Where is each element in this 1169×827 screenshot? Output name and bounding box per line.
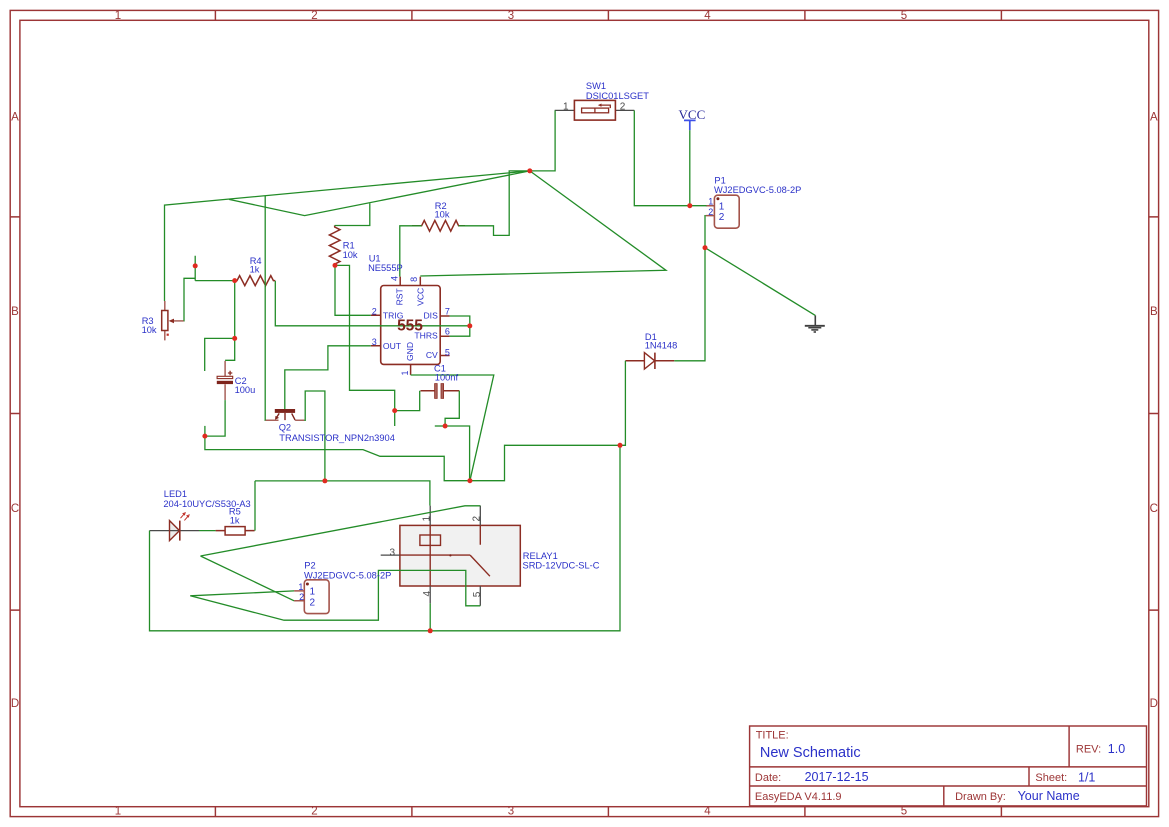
wire diagonal V3 to relay pin2 xyxy=(201,506,481,556)
resistor R1 body xyxy=(329,226,340,266)
svg-text:NE555P: NE555P xyxy=(368,263,403,273)
wire 555 pin1 GND slant xyxy=(411,375,494,481)
node R1 bottom junction xyxy=(333,263,338,268)
svg-text:100nf: 100nf xyxy=(435,373,459,383)
connector P2 body xyxy=(294,580,329,614)
node VCC-P1 junction xyxy=(687,203,692,208)
LED LED1 body xyxy=(150,513,200,541)
svg-text:TRANSISTOR_NPN2n3904: TRANSISTOR_NPN2n3904 xyxy=(279,433,395,443)
svg-text:4: 4 xyxy=(704,805,711,817)
svg-text:RST: RST xyxy=(395,287,405,305)
wire stub left of C2 xyxy=(205,338,235,371)
svg-text:100u: 100u xyxy=(235,385,256,395)
svg-text:A: A xyxy=(1150,112,1158,124)
wire OUT pin3 to Q2 base xyxy=(285,346,371,409)
node C1 left junction xyxy=(392,408,397,413)
wire stub above C2 bottom node xyxy=(204,426,206,436)
svg-text:1: 1 xyxy=(563,101,569,112)
connector P1 body xyxy=(706,195,739,228)
svg-text:1: 1 xyxy=(400,370,410,375)
wire R4 node to C2 top xyxy=(234,281,236,339)
555 pin names xyxy=(383,287,438,361)
svg-text:D: D xyxy=(11,698,19,710)
svg-text:WJ2EDGVC-5.08-2P: WJ2EDGVC-5.08-2P xyxy=(714,185,801,195)
node GND net junction xyxy=(467,478,472,483)
power VCC symbol xyxy=(684,120,696,130)
svg-text:SRD-12VDC-SL-C: SRD-12VDC-SL-C xyxy=(523,561,600,571)
wire C2 bottom lead xyxy=(205,400,225,436)
svg-text:CV: CV xyxy=(426,350,438,360)
svg-text:1: 1 xyxy=(310,586,316,597)
svg-text:TRIG: TRIG xyxy=(383,310,404,320)
svg-text:3: 3 xyxy=(508,10,514,22)
node R4 left junction xyxy=(232,278,237,283)
wire diagonal V4 to P2 pin1 xyxy=(190,591,294,596)
node D1 anode junction xyxy=(618,443,623,448)
svg-text:C: C xyxy=(11,503,19,515)
wire diagonal to R3 top xyxy=(165,171,530,301)
switch SW1 body xyxy=(555,100,635,120)
wire DIS-THRS loop pins 7-6 xyxy=(450,316,470,336)
op-amp-region IC U1 555 body xyxy=(371,277,450,375)
svg-text:7: 7 xyxy=(445,306,450,316)
svg-text:5: 5 xyxy=(901,10,907,22)
svg-text:RELAY1: RELAY1 xyxy=(523,551,558,561)
wire C1 left lead link xyxy=(395,391,420,411)
wire D1 cathode to P1 pin2 net xyxy=(674,248,705,361)
svg-text:1: 1 xyxy=(719,201,725,212)
svg-text:2017-12-15: 2017-12-15 xyxy=(805,770,869,784)
svg-text:2: 2 xyxy=(372,306,377,316)
svg-text:P1: P1 xyxy=(714,175,725,185)
wire SW1 pin1 riser xyxy=(530,110,555,170)
node R3 net junction xyxy=(193,263,198,268)
wire C2 top lead xyxy=(225,338,235,360)
svg-text:SW1: SW1 xyxy=(586,81,606,91)
svg-text:2: 2 xyxy=(299,592,304,602)
svg-text:DIS: DIS xyxy=(423,310,438,320)
svg-text:8: 8 xyxy=(409,277,419,282)
title block xyxy=(750,726,1147,806)
svg-text:3: 3 xyxy=(390,547,396,558)
svg-text:WJ2EDGVC-5.08-2P: WJ2EDGVC-5.08-2P xyxy=(304,570,391,580)
wire stub left of C1 junction xyxy=(435,425,445,427)
diode D1 body xyxy=(625,353,674,369)
svg-text:A: A xyxy=(11,112,19,124)
RELAY1 pin numbers xyxy=(390,516,483,598)
potentiometer R3 body xyxy=(162,301,184,340)
wire R2 left to 555 pin4 xyxy=(400,226,422,277)
resistor R4 body xyxy=(235,276,276,286)
wire relay pin1 net xyxy=(255,481,430,506)
P1 pin numbers xyxy=(708,197,724,224)
svg-text:1.0: 1.0 xyxy=(1108,742,1125,756)
svg-text:5: 5 xyxy=(472,591,483,597)
junction dots xyxy=(193,168,708,633)
svg-text:New Schematic: New Schematic xyxy=(760,745,861,761)
wire V4 to relay pin5 xyxy=(190,570,480,620)
svg-text:1: 1 xyxy=(708,197,713,207)
svg-text:1: 1 xyxy=(115,10,121,22)
svg-text:2: 2 xyxy=(620,101,626,112)
svg-text:REV:: REV: xyxy=(1076,744,1101,756)
wire P1 pin2 xyxy=(704,216,707,248)
svg-text:5: 5 xyxy=(901,805,907,817)
svg-text:Sheet:: Sheet: xyxy=(1035,772,1067,784)
node DIS-THRS junction xyxy=(467,323,472,328)
wire LED to R5 xyxy=(199,530,216,532)
node P1 pin2 junction xyxy=(703,245,708,250)
svg-text:5: 5 xyxy=(445,347,450,357)
wire D1 anode riser xyxy=(620,361,625,446)
svg-text:P2: P2 xyxy=(304,560,315,570)
555 pin numbers xyxy=(372,276,450,376)
wire GND node to D1 node xyxy=(470,445,620,480)
svg-text:Date:: Date: xyxy=(755,772,781,784)
wire R4 right to DIS node xyxy=(275,281,470,326)
svg-text:6: 6 xyxy=(445,327,450,337)
svg-text:4: 4 xyxy=(390,276,400,281)
svg-text:10k: 10k xyxy=(343,250,358,260)
svg-text:10k: 10k xyxy=(142,325,157,335)
wire bottom loop xyxy=(150,445,621,631)
svg-text:D: D xyxy=(1150,698,1158,710)
svg-text:Your Name: Your Name xyxy=(1018,789,1080,803)
node A top junction xyxy=(527,168,532,173)
svg-text:1: 1 xyxy=(422,516,433,522)
wire VCC to net xyxy=(689,130,691,206)
transistor Q2 body xyxy=(265,409,304,420)
wire R1 bottom to C1 node xyxy=(335,265,395,410)
svg-text:3: 3 xyxy=(372,337,377,347)
svg-text:4: 4 xyxy=(704,10,711,22)
svg-text:2: 2 xyxy=(310,598,316,609)
wire Q2 collector to relay net xyxy=(304,391,325,481)
wire node A diagonal to apex xyxy=(420,171,666,276)
wire diagonal via bend V1 xyxy=(229,171,530,216)
wire C1 junction to GND node xyxy=(445,426,470,481)
svg-text:1: 1 xyxy=(115,805,121,817)
svg-text:EasyEDA V4.11.9: EasyEDA V4.11.9 xyxy=(755,791,842,803)
svg-text:C: C xyxy=(1150,503,1158,515)
svg-text:1N4148: 1N4148 xyxy=(645,341,678,351)
svg-text:OUT: OUT xyxy=(383,341,402,351)
svg-text:10k: 10k xyxy=(435,210,450,220)
resistor R5 body xyxy=(216,527,255,535)
wire diagonal V3 to P2 pin2 xyxy=(201,556,295,601)
svg-text:2: 2 xyxy=(472,516,483,522)
svg-text:1k: 1k xyxy=(250,265,260,275)
wire Q2 emitter long vertical xyxy=(264,196,266,420)
wire R1 bottom to TRIG pin2 xyxy=(335,265,371,315)
wire R1 top riser xyxy=(335,203,370,225)
capacitor C1 body xyxy=(421,384,460,399)
wire C1 right lead down xyxy=(445,391,459,426)
svg-text:U1: U1 xyxy=(369,254,381,264)
node Q2 collector junction xyxy=(322,478,327,483)
wire SW1 pin2 to P1 pin1 xyxy=(634,110,706,205)
node C1 right junction xyxy=(443,424,448,429)
wire R2 right to node A xyxy=(459,171,530,236)
svg-text:VCC: VCC xyxy=(679,107,706,122)
svg-text:2: 2 xyxy=(311,10,317,22)
svg-text:Drawn By:: Drawn By: xyxy=(955,791,1006,803)
ground symbol xyxy=(805,315,825,332)
svg-text:4: 4 xyxy=(422,591,433,597)
relay RELAY1 body xyxy=(381,506,521,606)
svg-text:LED1: LED1 xyxy=(164,489,187,499)
svg-text:1/1: 1/1 xyxy=(1078,770,1095,784)
svg-text:GND: GND xyxy=(405,342,415,361)
node C2 top junction xyxy=(232,336,237,341)
wire stub below C1 node xyxy=(394,411,396,426)
svg-text:3: 3 xyxy=(508,805,514,817)
svg-text:THRS: THRS xyxy=(414,331,438,341)
svg-text:TITLE:: TITLE: xyxy=(756,730,789,742)
svg-text:B: B xyxy=(11,306,19,318)
SW1 pin numbers xyxy=(563,101,626,112)
svg-text:B: B xyxy=(1150,306,1158,318)
svg-text:1k: 1k xyxy=(230,516,240,526)
svg-text:2: 2 xyxy=(708,207,713,217)
capacitor C2 body xyxy=(217,361,233,400)
wire to ground symbol xyxy=(705,248,815,316)
svg-text:2: 2 xyxy=(719,212,725,223)
node C2 bottom junction xyxy=(202,434,207,439)
svg-text:VCC: VCC xyxy=(415,288,425,306)
svg-text:Q2: Q2 xyxy=(279,423,291,433)
svg-text:DSIC01LSGET: DSIC01LSGET xyxy=(586,91,649,101)
svg-text:2: 2 xyxy=(311,805,317,817)
P2 pin numbers xyxy=(298,582,315,609)
node relay pin4 junction xyxy=(428,628,433,633)
wire R5 riser xyxy=(254,481,256,531)
svg-text:1: 1 xyxy=(298,582,303,592)
wire R3 wiper to R4 xyxy=(184,256,235,321)
wire relay pin4 drop xyxy=(429,603,431,630)
resistor R2 body xyxy=(412,220,465,231)
wire C2 bottom node to GND node xyxy=(205,436,470,481)
